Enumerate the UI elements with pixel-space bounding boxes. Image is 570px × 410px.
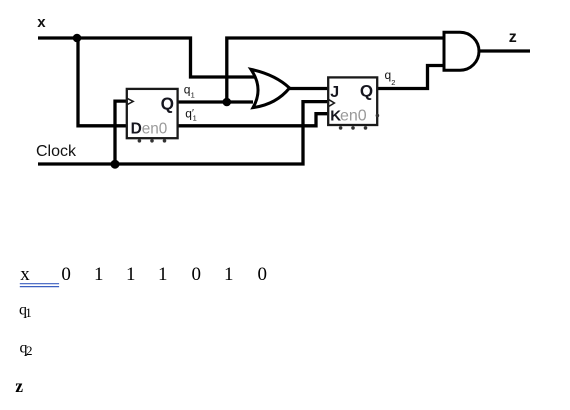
svg-text:1: 1 — [25, 305, 32, 320]
svg-text:1: 1 — [158, 264, 168, 285]
svg-text:0: 0 — [61, 264, 71, 285]
svg-text:D: D — [131, 120, 142, 137]
svg-text:en0: en0 — [142, 120, 168, 137]
svg-text:q: q — [184, 83, 191, 97]
svg-text:en0: en0 — [340, 108, 367, 125]
svg-text:1: 1 — [224, 264, 234, 285]
svg-text:Q: Q — [360, 82, 373, 101]
svg-text:x: x — [20, 264, 30, 285]
svg-text:1: 1 — [126, 264, 136, 285]
svg-text:0: 0 — [192, 264, 202, 285]
svg-text:q: q — [185, 106, 192, 120]
svg-text:2: 2 — [391, 78, 395, 87]
svg-text:Q: Q — [161, 94, 174, 114]
svg-text:Clock: Clock — [36, 143, 77, 160]
svg-text:z: z — [15, 376, 23, 396]
svg-text:1: 1 — [94, 264, 104, 285]
svg-text:z: z — [509, 29, 517, 46]
svg-text:x: x — [37, 14, 46, 31]
svg-text:q: q — [385, 68, 392, 82]
svg-text:2: 2 — [26, 343, 33, 358]
svg-text:J: J — [330, 84, 339, 101]
svg-text:1: 1 — [191, 91, 195, 100]
svg-text:1: 1 — [193, 114, 197, 123]
svg-text:0: 0 — [258, 264, 268, 285]
